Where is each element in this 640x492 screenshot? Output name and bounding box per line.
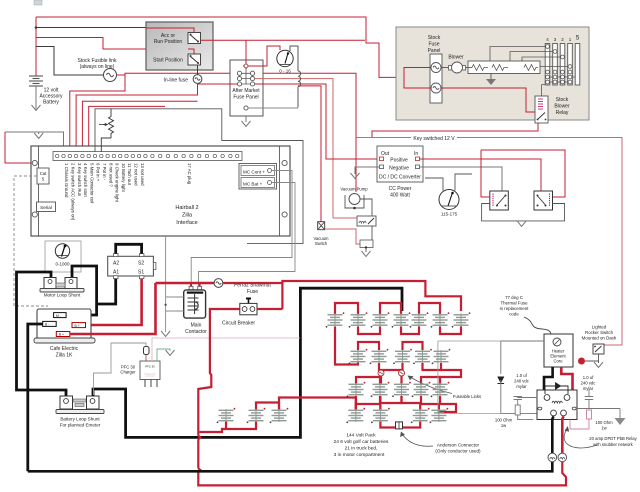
ground relay rail [517,221,526,227]
svg-text:Zilla 1K: Zilla 1K [56,353,73,359]
zilla M- terminal [54,313,67,318]
wire relay bottoms rail with ground [482,204,565,221]
gauge 115-175 [439,190,459,210]
svg-text:Thermal Fuse: Thermal Fuse [500,301,528,306]
main contactor SW4 [184,286,206,318]
wire trio link to row4 [279,398,356,410]
wire slat to relay [542,85,546,97]
svg-text:1.0 uf: 1.0 uf [583,375,594,380]
svg-text:12 not used: 12 not used [134,163,139,186]
ground chassis drop [38,132,40,134]
relay R1 [490,191,509,210]
svg-text:6 Pot in +: 6 Pot in + [96,163,101,182]
heater element core box [544,334,573,367]
svg-text:1.0 uf: 1.0 uf [516,373,527,378]
DCDC negative terminals [380,165,384,169]
svg-text:Serial: Serial [40,205,52,210]
12V accessory battery B1 [29,76,43,86]
zilla B+ terminal [72,323,86,328]
wire red into hairball left [5,132,31,163]
wire relay black to connector and bottom rail [28,416,554,471]
throttle pot resistor zigzag [109,109,114,138]
svg-text:24 6 volt golf car batteries: 24 6 volt golf car batteries [334,439,390,445]
wire inline fuse to AMFP row3 [198,83,238,85]
zilla B- terminal [43,321,57,326]
wire charger green ground [157,349,170,361]
junction dot coil [164,304,166,306]
snubber diode D2 [545,383,568,394]
stock heater circuit enclosure [396,27,589,120]
svg-text:Cat: Cat [40,171,47,176]
wire trio top bridge b2-b3 [256,403,279,410]
svg-text:9 Check engine light: 9 Check engine light [115,163,120,203]
svg-text:1 Chassis Ground: 1 Chassis Ground [64,163,69,198]
stock fuse 2 [431,83,441,93]
pin labels rotated [64,163,192,221]
battery row1 cells [326,312,345,327]
svg-text:3 in motor compartment: 3 in motor compartment [334,452,385,458]
hairball right strip [279,146,281,236]
wire charger fuse to box [145,355,147,362]
svg-text:0-1000: 0-1000 [55,262,70,267]
svg-text:Fuse Panel: Fuse Panel [233,95,258,101]
wire row2 bottom bridge b4-b5 [423,363,442,370]
svg-text:Anderson Connector: Anderson Connector [437,443,480,448]
svg-text:Main: Main [191,323,202,329]
wire col link row3-row4 left [355,396,357,410]
svg-text:Blower: Blower [448,55,464,61]
battery loop shunt [56,396,104,414]
svg-text:Rocker Switch: Rocker Switch [585,330,614,335]
wire switch2 to inline fuse [197,65,199,75]
svg-text:100 Ohm: 100 Ohm [495,418,513,423]
svg-text:Fuseable Links: Fuseable Links [453,394,481,399]
wire battery top lead [35,17,37,76]
wire thick red bus through contactor studs [156,282,215,285]
wire AMFP bottom to gauge loop [248,107,298,109]
wire fuse link left [380,370,382,384]
wire AMFP row3 to DCDC out [255,84,377,159]
wire vacuum switch out [325,229,360,244]
wire red link to relay pair [481,150,565,197]
wire heater left loop [438,341,501,413]
wire row1 top bridge b1-b2 [335,303,358,314]
wire switch1 out to right [201,39,366,41]
wire battery bottom lead [35,86,37,109]
wire row2 top bridge b3-b4 [403,342,423,350]
battery row2 cells [349,349,368,364]
svg-text:S1: S1 [138,270,144,276]
svg-text:100 Ohm: 100 Ohm [595,420,613,425]
svg-text:17 AC plug: 17 AC plug [187,163,192,185]
svg-text:Positive: Positive [390,158,408,164]
ground blower resistors [490,74,492,80]
wire red feed into panel fuses [404,68,431,89]
pin header strip [53,152,242,161]
wire DCDC out negative to ground [355,167,380,174]
svg-text:B -: B - [45,323,49,327]
motor loop shunt [40,278,84,293]
wire row3 bottom bridge b3-b4 [402,396,422,403]
svg-text:Motor Loop Shunt: Motor Loop Shunt [44,293,81,298]
squiggle arrow to thermal fuse [524,317,553,339]
svg-text:Lighted: Lighted [592,325,607,330]
blower speed slats [545,44,580,86]
ground contactor coil [161,331,170,337]
wire thick shunt right to M- [66,266,97,315]
wire heater red to relay [561,367,572,394]
throttle pot loop wire [95,109,303,244]
svg-text:DC / DC Converter: DC / DC Converter [379,175,421,181]
battery trio cells [217,408,236,423]
image artifact icon [34,0,42,5]
svg-text:Mounted on Dash: Mounted on Dash [582,336,617,341]
wire gauge right lead with hops [290,46,301,108]
svg-text:with snubber network: with snubber network [593,442,633,447]
serial port [37,202,56,212]
wire fuse2 to relay [441,88,535,112]
wire row2 right link to row3 [440,370,461,384]
svg-text:Circuit Breaker: Circuit Breaker [222,321,255,327]
ground battery [32,105,41,111]
battery row3 cells [347,382,366,397]
in-line fuse F2 [193,75,202,84]
stock fuse panel strip [430,54,442,103]
capacitor C2 [576,390,620,409]
resistor R-blower1 [472,65,488,71]
wire row1 bottom bridge b2-b3 [358,327,380,335]
ground rocker [598,361,600,363]
svg-text:MC Bat +: MC Bat + [243,182,263,187]
svg-text:240 vdc: 240 vdc [581,381,596,386]
wire fuse to pack feed tee [223,281,461,311]
wire AMFP row1 into relay coil [333,217,357,219]
svg-text:77 deg C: 77 deg C [505,295,523,300]
resistor R-blower3 [524,65,538,71]
wire gauge leads [425,174,472,191]
svg-text:After Market: After Market [232,88,260,94]
gauge 0-1000 box [45,241,81,272]
wire S1 red to controller [86,279,142,325]
svg-text:Panel: Panel [428,48,441,54]
pin circles [56,154,239,157]
wire charger plus thin red [152,338,300,361]
mounting holes [32,160,287,217]
ferraz fuse F3 [214,279,223,288]
slat tap circles [546,45,572,84]
svg-text:PFC 30: PFC 30 [145,365,155,369]
dashed cat5 cable to dash [14,176,48,306]
svg-text:4 Key switch start: 4 Key switch start [83,163,88,197]
wire fuse1 to blower [441,67,449,69]
wire row3 top bridge b4-b5 [421,377,440,384]
wire A1 down to M- riser [97,279,116,304]
wire red start feed y37.5 [36,38,188,50]
zilla controller box [34,309,95,343]
svg-text:3 Key switch Run: 3 Key switch Run [77,163,82,197]
fuseable link fuse FL1 [378,370,384,376]
wire vacuum switch feed [298,86,321,222]
wire row4 top bridge b1-b2 [356,404,381,410]
MC Bat terminal [241,178,275,188]
svg-text:Out: Out [381,151,390,157]
stock fuse 1 [431,63,441,73]
vacuum relay K2 [357,216,376,226]
svg-text:mylar: mylar [516,384,527,389]
wire DCDC in negative to relay1 [420,167,503,191]
svg-text:144 Volt Pack: 144 Volt Pack [346,433,376,439]
switch S1 acc/run [188,33,201,44]
AMFP bottom terminal [244,106,248,110]
svg-text:MC Cont +: MC Cont + [243,170,265,175]
svg-text:M -: M - [56,314,61,318]
cat5 jack [37,168,49,184]
anderson connector J1 [396,422,403,429]
svg-text:Contactor: Contactor [185,329,207,335]
junction dot [35,26,38,29]
PFC30 charger box [140,361,160,380]
AMFP ground [245,116,247,122]
ignition switch box [146,22,213,70]
svg-text:code: code [509,312,519,317]
svg-text:10 Battery light: 10 Battery light [121,163,126,192]
svg-text:240 vdc: 240 vdc [514,379,529,384]
svg-text:0 - 16: 0 - 16 [279,69,291,74]
wire row2 bottom bridge b2-b3 [379,363,403,370]
AMFP internal bus [242,68,251,84]
wire AMFP row1 to vacuum pump feed [255,73,356,192]
wire relay out to key rail [372,123,538,138]
wire row1 bottom bridge b4-b5 [401,327,419,335]
wire relay to ground [366,226,372,252]
gauge 0-16 [277,50,293,66]
hairball left strip [38,146,40,236]
svg-text:Relay: Relay [556,110,569,116]
wire thick shunt left loop [17,272,67,397]
wire charger DC to shunt [94,343,147,395]
pack row1 serpentine bridges [226,303,461,429]
svg-text:in replacement: in replacement [500,306,530,311]
svg-text:Vacuum Pump: Vacuum Pump [340,187,368,192]
svg-text:5 Main Contactor coil: 5 Main Contactor coil [89,163,94,203]
svg-text:For planned Emeter: For planned Emeter [60,423,101,428]
arc arrow to relay [564,429,597,448]
wire row1 bottom bridge b6-b7 [440,327,461,335]
after market fuse panel box [230,60,263,116]
svg-text:Charger: Charger [120,370,136,375]
wire chassis ground pin1 [5,132,64,152]
wire heater black to relay [544,367,553,394]
svg-text:8 not used ?: 8 not used ? [108,163,113,187]
relay R2 [534,191,553,210]
wire pump to vacuum relay [360,199,372,216]
svg-text:Start Position: Start Position [153,58,183,64]
svg-text:Zilla: Zilla [182,213,193,219]
wire B+ aux to contactor riser [70,283,156,334]
ground heater right [619,409,621,419]
wire relay red to connector [562,416,563,453]
wire col link row3-row4 mid [379,396,381,410]
motor box [108,254,156,279]
charger fuse holder [144,347,150,355]
svg-text:Cafe Electric: Cafe Electric [50,346,79,352]
AMFP top terminal [243,63,248,68]
stock fusible link fuse F1 [104,69,117,82]
thermal fuse circle [553,338,561,346]
DPDT relay K3 [537,390,577,420]
wire B- to bottom bus [28,324,43,471]
DCDC positive terminals [380,157,384,161]
switch S2 start [188,54,201,65]
svg-text:CC Power: CC Power [389,186,412,192]
wire row4 top bridge b3-b4 [420,404,439,410]
wire MC Cont to contactor [191,171,292,288]
wire breaker left down to bottom red rail [198,309,240,430]
wire fuse link right [400,370,402,384]
svg-text:A2: A2 [113,261,119,267]
wire A2-S2 jumper [116,244,142,253]
wire trio feed branch [200,429,227,432]
svg-text:Hairball 2: Hairball 2 [175,205,198,211]
capacitor C1 [514,397,538,406]
indicator lamp red [578,358,585,365]
svg-text:B +: B + [75,324,80,328]
svg-text:Battery: Battery [43,100,59,106]
wire row4 anderson link [380,422,420,428]
wire heater left feed [501,341,544,374]
wire row3 bottom bridge b2-b3 [380,396,402,403]
AMFP fuse circles [237,71,254,86]
svg-text:Blower: Blower [554,104,570,110]
wire row1 top bridge b5-b6 [419,303,440,314]
svg-text:mylar: mylar [583,386,594,391]
MC Cont terminal [241,166,275,176]
throttle pot wiper arrow [99,124,106,126]
svg-text:Fuse: Fuse [247,289,258,295]
svg-text:2 Key switch ACC (always on): 2 Key switch ACC (always on) [71,163,76,221]
wire fusible link out to pin2 [70,75,125,152]
wire row2 top bridge b1-b2 [358,342,379,350]
resistor R-blower2 [492,65,508,71]
wire fusible link to AMFP row1 [125,73,237,75]
svg-text:Interface: Interface [176,220,197,226]
svg-text:Key switched 12 V: Key switched 12 V [413,136,455,142]
wire black ACC feed y27.5 [36,27,146,29]
DC/DC converter box [377,146,423,182]
svg-text:11 Tach out: 11 Tach out [127,163,132,186]
charger AC cord [145,380,157,388]
svg-text:Negative: Negative [389,166,409,172]
wire blower to resistor block [466,67,473,69]
contactor coil wiring [166,236,184,332]
vacuum sub block [360,240,373,248]
fuseable link fuse FL2 [399,370,405,376]
wire to stock fusible link [36,47,103,76]
svg-text:In: In [414,151,418,157]
wire MC Bat to contactor [199,183,296,288]
gauge 0-1000 [55,244,69,258]
wire AMFP top to 0-16 gauge left [249,46,280,66]
connector black CN1 [548,453,557,462]
svg-text:20 amp DPDT PbB Relay: 20 amp DPDT PbB Relay [589,436,637,441]
vacuum pump M2 [345,194,364,210]
junction dot vacuum [365,246,367,248]
vacuum switch SW3 [318,222,325,230]
resistor block outline [468,61,540,74]
wire red 12V feed to stock panel y17 [36,17,404,77]
svg-text:Fuse: Fuse [428,42,439,48]
wire trio bottom bridge b1-b2 [226,422,256,430]
wire AMFP row2 to vacuum relay [255,79,333,218]
svg-text:21 in truck bed,: 21 in truck bed, [345,446,378,452]
key switched 12V rail [356,138,622,346]
wire pin5 feed [89,106,165,152]
svg-text:B +: B + [59,333,64,337]
wire stud stubs [191,283,200,286]
battery row4 cells [346,408,365,423]
wire pin3 from inline fuse [76,84,197,152]
wire pin4 feed [82,101,197,152]
svg-text:Stock: Stock [428,35,441,41]
wire row1 top bridge b3-b4 [380,303,401,314]
circuit breaker CB1 [240,298,257,315]
resistor R100-right pink [587,410,592,419]
svg-text:A1: A1 [113,270,119,276]
wire DCDC in positive to relay2 [420,159,542,191]
wire lamp to switch [585,354,599,361]
wire start feed inside box [188,49,194,54]
svg-text:Switch: Switch [315,241,328,246]
rocker switch SW5 [593,344,604,354]
hairball interface box [31,146,290,236]
svg-text:S2: S2 [138,261,144,267]
wire row3 top bridge b1-b2 [356,377,380,384]
svg-text:Core: Core [553,359,563,364]
zilla aux terminal [56,332,70,337]
wire shunt right to pack negative [93,288,402,437]
svg-text:115-175: 115-175 [441,212,458,217]
wire switch1 to AMFP top [245,40,247,63]
stock blower relay K1 [535,96,548,123]
wire row1 left link to row2 [335,327,358,365]
blower motor M1 [449,62,466,73]
svg-text:400 Watt: 400 Watt [390,193,410,199]
wire red feed relay1 [481,150,490,197]
svg-text:7 Pot in -: 7 Pot in - [102,163,107,181]
wire breaker rail crossing hops [198,430,566,485]
svg-text:Run Position: Run Position [154,39,183,45]
connector red CN2 [558,453,567,462]
wire pot to pin7 [101,138,111,152]
resistor R100-left [515,405,520,415]
svg-text:Battery Loop Shunt: Battery Loop Shunt [60,417,100,422]
diode D1 [498,377,505,384]
svg-text:In-line fuse: In-line fuse [164,78,189,84]
wire acc feed inside box [146,28,194,33]
wire slat bottom bus [549,77,575,82]
svg-text:(Only conductor used): (Only conductor used) [435,449,481,454]
MC terminal box [239,164,277,190]
svg-text:13 not used: 13 not used [140,163,145,186]
wire breaker right to tee [257,308,282,310]
svg-text:Stock: Stock [556,97,569,103]
wire row3 right link down [439,396,456,412]
wire resistor taps to slats [490,47,568,67]
